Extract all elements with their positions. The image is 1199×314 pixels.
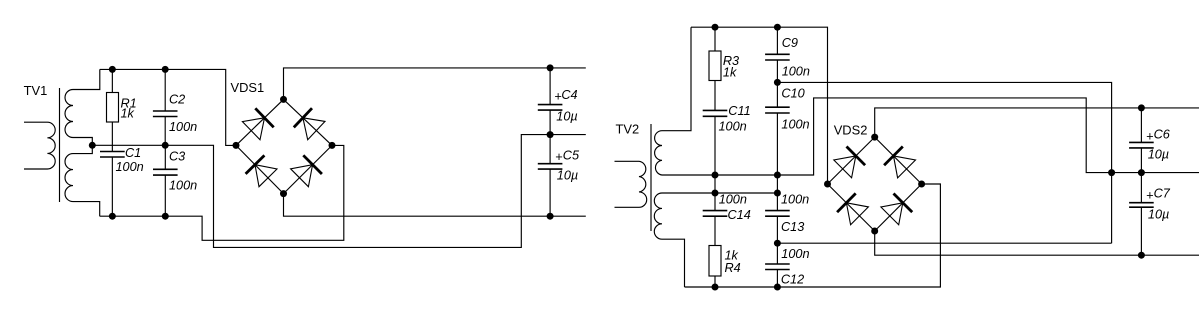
bridge VDS2 edge top-left: [828, 137, 875, 184]
capacitor C14: [714, 193, 716, 211]
svg-text:+: +: [1146, 129, 1153, 143]
transformer TV1 core: [59, 88, 61, 202]
wire midpoint output stub: [550, 134, 586, 136]
capacitor C12: [776, 243, 778, 264]
resistor R3: [714, 27, 716, 51]
svg-text:10µ: 10µ: [556, 110, 577, 124]
svg-text:100n: 100n: [782, 65, 810, 79]
svg-text:10µ: 10µ: [1148, 148, 1169, 162]
node C9/C10 junction: [774, 79, 781, 86]
capacitor C10: [776, 82, 778, 107]
node R1/C1 bottom: [109, 213, 116, 220]
wire C13/C12 junction to output midpoint vertical: [777, 242, 1111, 244]
svg-text:100n: 100n: [781, 118, 809, 132]
diode VDS1 top-left: [242, 118, 264, 140]
transformer TV1 secondary winding upper: [65, 69, 100, 145]
bridge VDS1 edge top-left: [236, 99, 284, 145]
node R1 top: [109, 66, 116, 73]
node C5 bottom: [547, 213, 554, 220]
diode VDS2 top-right: [894, 156, 916, 178]
capacitor C6: [1140, 108, 1142, 142]
svg-text:C9: C9: [782, 36, 798, 50]
node C4/C5 midpoint: [547, 131, 554, 138]
node tap2 x715: [712, 190, 719, 197]
svg-text:100n: 100n: [781, 192, 809, 206]
svg-text:1k: 1k: [723, 65, 737, 79]
svg-text:C7: C7: [1154, 186, 1171, 200]
node VDS2 bottom: [871, 228, 878, 235]
capacitor C9: [776, 27, 778, 54]
svg-text:C6: C6: [1154, 128, 1171, 142]
svg-text:C5: C5: [563, 148, 580, 162]
bridge VDS2 edge bottom-right: [875, 184, 922, 231]
wire VDS2 minus output to C7: [875, 231, 1199, 255]
node tap1 x777: [774, 172, 781, 179]
svg-text:+: +: [1146, 188, 1153, 202]
diode VDS2 bottom-right: [881, 203, 903, 225]
node center tap TV1: [89, 142, 96, 149]
svg-text:100n: 100n: [169, 120, 197, 134]
svg-text:100n: 100n: [116, 160, 144, 174]
wire tap bridge column R3: [714, 175, 716, 193]
node C7 bottom: [1138, 252, 1145, 259]
capacitor C3: [164, 145, 166, 169]
capacitor C11: [703, 110, 728, 116]
node C2/C3 junction: [162, 142, 169, 149]
bridge VDS1 edge bottom-left: [236, 145, 284, 193]
node VDS2 left: [824, 181, 831, 188]
transformer TV2 secondary winding lower: [654, 193, 684, 287]
capacitor C7: [1140, 173, 1142, 203]
diode VDS2 top-left: [834, 156, 856, 178]
node C6/C7 midpoint: [1138, 169, 1145, 176]
diode VDS2 bottom-left: [846, 203, 868, 225]
svg-text:C12: C12: [781, 272, 804, 286]
svg-text:TV1: TV1: [24, 83, 48, 98]
node VDS1 right: [329, 142, 336, 149]
wire bottom rail right circuit to VDS2 right: [685, 184, 941, 287]
resistor R1: [111, 69, 113, 92]
capacitor C5: [549, 135, 551, 164]
node R4 bottom: [712, 284, 719, 291]
svg-text:100n: 100n: [781, 247, 809, 261]
bridge VDS1 edge top-right: [284, 99, 333, 145]
resistor R4: [709, 246, 721, 277]
svg-text:R4: R4: [725, 261, 741, 275]
node VDS1 left: [233, 142, 240, 149]
diode VDS1 bottom-left: [255, 165, 277, 187]
svg-text:+: +: [555, 150, 562, 164]
diode VDS1 top-right: [303, 118, 325, 140]
wire VDS2 plus output to C6: [875, 108, 1199, 137]
transformer TV1 primary winding: [24, 122, 55, 169]
transformer TV2 primary winding: [615, 161, 647, 207]
bridge VDS2 edge bottom-left: [828, 184, 875, 231]
transformer TV2 secondary winding upper: [655, 27, 715, 175]
svg-text:1k: 1k: [121, 107, 135, 121]
capacitor C1: [100, 152, 125, 158]
svg-text:C13: C13: [781, 220, 804, 234]
node C6 top: [1138, 104, 1145, 111]
svg-text:100n: 100n: [719, 192, 747, 206]
node C3 bottom: [162, 213, 169, 220]
wire tap line 1 to upper route: [715, 98, 1141, 175]
node C12 bottom: [774, 284, 781, 291]
node tap1 x715: [712, 172, 719, 179]
bridge VDS2 edge top-right: [875, 137, 922, 184]
node VDS1 top: [280, 96, 287, 103]
svg-text:10µ: 10µ: [557, 168, 578, 182]
svg-text:C3: C3: [169, 149, 185, 163]
wire top rail left circuit: [100, 69, 236, 145]
transformer TV1 secondary winding lower: [65, 145, 100, 216]
svg-text:C14: C14: [728, 208, 751, 222]
wire tap bridge column C10: [776, 175, 778, 193]
svg-text:C11: C11: [728, 104, 750, 118]
wire top rail right circuit to VDS2 left: [691, 27, 828, 184]
node C9 top: [774, 24, 781, 31]
capacitor C13: [776, 193, 778, 211]
node C4 top: [547, 64, 554, 71]
node midpoint vertical junction: [1108, 169, 1115, 176]
wire bottom rail left circuit: [100, 145, 344, 240]
svg-text:VDS2: VDS2: [834, 122, 868, 137]
svg-text:100n: 100n: [719, 120, 747, 134]
capacitor C4: [549, 68, 551, 105]
node VDS1 bottom: [280, 190, 287, 197]
diode VDS1 bottom-right: [291, 165, 313, 187]
wire center tap to C2/C3 junction and to output midpoint: [92, 135, 550, 248]
svg-text:C4: C4: [561, 88, 577, 102]
svg-text:C1: C1: [125, 146, 141, 160]
node C13/C12 junction: [774, 240, 781, 247]
wire C9/C10 junction to output midpoint: [777, 82, 1111, 243]
wire midpoint output stub right: [1141, 172, 1199, 174]
svg-text:100n: 100n: [169, 179, 197, 193]
svg-text:VDS1: VDS1: [231, 80, 265, 95]
wire tap line 2: [662, 192, 777, 194]
node R3 top: [712, 24, 719, 31]
svg-text:C10: C10: [781, 87, 804, 101]
svg-text:10µ: 10µ: [1148, 207, 1169, 221]
svg-text:C2: C2: [169, 92, 185, 106]
wire VDS1 minus output to C5: [284, 194, 586, 217]
svg-text:TV2: TV2: [616, 121, 640, 136]
node tap2 x777: [774, 190, 781, 197]
wire VDS1 plus output to C4: [284, 68, 586, 100]
node VDS2 top: [871, 134, 878, 141]
node C2 top: [162, 66, 169, 73]
node VDS2 right: [918, 181, 925, 188]
transformer TV2 core: [650, 124, 652, 231]
bridge VDS1 edge bottom-right: [284, 145, 333, 193]
capacitor C2: [164, 69, 166, 111]
